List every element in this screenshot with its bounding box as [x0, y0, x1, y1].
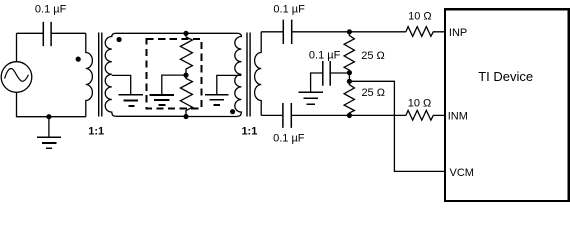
resistor R2 25 ohm — [344, 81, 354, 115]
AC source V1 — [1, 62, 32, 93]
ground G1 — [48, 117, 50, 138]
svg-text:0.1 µF: 0.1 µF — [35, 3, 67, 15]
junction dot vcm node — [347, 79, 352, 84]
svg-text:10 Ω: 10 Ω — [408, 11, 432, 23]
T2 core — [247, 33, 250, 117]
svg-text:10 Ω: 10 Ω — [408, 98, 432, 110]
junction dot bottom left — [46, 114, 51, 119]
top rail right to cap — [261, 31, 283, 33]
resistor R lower (termination) — [180, 75, 192, 116]
top middle junction dot — [183, 31, 188, 36]
sine wave in source — [5, 68, 29, 81]
transformer T1 primary winding — [86, 33, 93, 116]
resistor R upper (termination) — [180, 33, 192, 75]
INP node junction dot — [347, 29, 352, 34]
wire top rail to capacitor — [17, 32, 44, 34]
bottom rail middle — [116, 115, 238, 117]
svg-text:1:1: 1:1 — [241, 126, 257, 138]
wire between dots — [348, 73, 350, 82]
capacitor C3 0.1uF plates (mid) — [323, 61, 330, 86]
resistor R3 10 ohm (INP) — [406, 27, 445, 37]
ground G5 — [298, 92, 322, 104]
T2 primary center tap wire — [217, 75, 242, 94]
bottom middle junction dot — [183, 114, 188, 119]
svg-text:25 Ω: 25 Ω — [361, 50, 385, 62]
wire source bottom — [17, 92, 86, 116]
ground G3 — [150, 95, 174, 105]
transformer T2 secondary winding — [255, 32, 262, 116]
INM node junction dot — [347, 113, 352, 118]
T1 secondary center tap wire — [112, 75, 131, 94]
T2 primary phase dot — [230, 109, 235, 114]
wire cap to INM node — [291, 114, 406, 116]
center tap wire to ground — [162, 75, 186, 94]
T1 secondary phase dot — [117, 37, 122, 42]
wire capacitor to transformer primary — [51, 32, 86, 34]
svg-text:INP: INP — [449, 27, 467, 39]
wire cap to INP node — [292, 31, 406, 33]
middle junction dot — [183, 73, 188, 78]
resistor R4 10 ohm (INM) — [406, 110, 445, 120]
transformer T1 secondary winding — [105, 33, 116, 116]
dashed box (termination network) — [147, 39, 202, 109]
svg-text:VCM: VCM — [450, 167, 474, 179]
capacitor C1 0.1uF plates — [43, 22, 51, 46]
svg-text:0.1 µF: 0.1 µF — [309, 49, 341, 61]
ground G2 — [119, 95, 143, 106]
ground G4 — [205, 95, 229, 105]
top rail middle — [116, 32, 186, 34]
svg-text:25 Ω: 25 Ω — [361, 87, 385, 99]
VCM wire — [349, 81, 445, 171]
T1 primary phase dot — [76, 57, 81, 62]
T1 core — [99, 33, 102, 117]
transformer T2 primary winding — [235, 33, 242, 116]
wire source top to rail — [16, 33, 18, 61]
svg-text:TI Device: TI Device — [478, 69, 533, 84]
svg-text:1:1: 1:1 — [88, 126, 104, 138]
svg-text:0.1 µF: 0.1 µF — [273, 132, 305, 144]
svg-text:INM: INM — [448, 111, 468, 123]
resistor R1 25 ohm — [344, 32, 354, 73]
capacitor C4 0.1uF plates (bottom) — [283, 103, 291, 128]
wire cap to ground — [311, 73, 323, 92]
svg-text:0.1 µF: 0.1 µF — [273, 3, 305, 15]
wire cap to dot — [330, 72, 349, 74]
TI Device box U1 — [445, 9, 569, 201]
capacitor C2 0.1uF plates (top) — [283, 20, 291, 44]
junction dot cap node — [347, 70, 352, 75]
bottom rail right — [261, 114, 283, 116]
